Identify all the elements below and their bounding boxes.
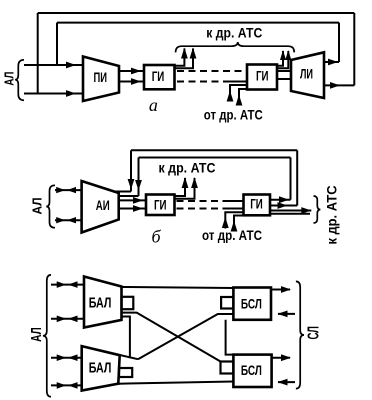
wire b feedback left inner vertical xyxy=(138,158,140,197)
brace k dr ATS right diagram b xyxy=(314,196,321,223)
wire b incoming trunk 1 xyxy=(225,212,243,228)
wire GIb1 up trunk 2 xyxy=(175,178,195,199)
block GI b-left box xyxy=(146,195,175,216)
block PI trapezoid xyxy=(83,57,119,102)
node arrow LI out 1 xyxy=(328,59,338,66)
node arrow AI-GI 2 xyxy=(133,205,143,212)
svg-text:к др. АТС: к др. АТС xyxy=(325,185,340,244)
wire E inter-BSL vertical xyxy=(226,320,234,355)
wire D inter-BAL vertical xyxy=(122,317,130,358)
wire F bottom straight xyxy=(118,382,233,384)
node arrow b trunk 1 xyxy=(301,207,311,214)
node double arrow b line 2 xyxy=(56,217,76,223)
wire cross diagonal up xyxy=(138,314,233,359)
wire LI out 2 xyxy=(324,84,354,86)
node arrow b out 1 xyxy=(279,196,289,203)
wire feedback top outer xyxy=(38,12,355,14)
wire b feedback right inner vertical xyxy=(290,158,292,200)
svg-text:БАЛ: БАЛ xyxy=(89,360,112,377)
node arrow input 2 xyxy=(66,90,76,97)
wire feedback left outer vertical xyxy=(37,13,39,94)
svg-text:к др. АТС: к др. АТС xyxy=(206,25,262,41)
wire GI1 up trunk 2 xyxy=(175,49,194,69)
svg-text:АЛ: АЛ xyxy=(30,198,45,215)
wire b incoming trunk 2 xyxy=(234,216,244,229)
node arrow up 1 xyxy=(181,48,188,59)
node arrow b out 2 xyxy=(278,202,288,209)
wire corner junction bottom BAL xyxy=(120,355,138,359)
svg-text:ПИ: ПИ xyxy=(93,69,107,85)
wire incoming trunk 2 xyxy=(239,89,247,102)
wire b outgoing trunk 2 xyxy=(270,213,310,215)
wire v subscriber line 2 xyxy=(51,318,84,320)
wire b GI2 out feedback 2 xyxy=(270,205,297,207)
node arrow GI2 up 2 xyxy=(285,50,291,60)
wire PI to GI line 2 xyxy=(119,81,144,83)
svg-text:АИ: АИ xyxy=(96,197,110,213)
svg-text:БСЛ: БСЛ xyxy=(241,362,262,378)
svg-text:ГИ: ГИ xyxy=(152,68,165,84)
node arrow GI2 up 1 xyxy=(280,50,286,60)
wire C cross diagonal down xyxy=(122,313,221,362)
svg-text:к др. АТС: к др. АТС xyxy=(159,160,216,176)
block GI right box xyxy=(247,65,277,90)
block LI trapezoid xyxy=(291,52,324,98)
wire b subscriber line 2 xyxy=(55,219,82,221)
node arrow BSL bottom out xyxy=(281,354,291,361)
svg-text:АЛ: АЛ xyxy=(29,327,45,342)
wire b feedback right outer vertical xyxy=(296,150,298,205)
wire GI1 up trunk 1 xyxy=(175,49,185,66)
node arrow incoming 2 xyxy=(236,95,243,106)
block GI left box xyxy=(144,65,175,89)
svg-text:БАЛ: БАЛ xyxy=(89,294,112,311)
svg-text:СЛ: СЛ xyxy=(305,326,322,340)
node arrow b up 1 xyxy=(182,177,189,188)
connector rect BSL top xyxy=(221,297,233,309)
node arrow down outer xyxy=(128,179,135,190)
svg-text:ГИ: ГИ xyxy=(250,196,263,212)
wire b feedback top inner xyxy=(139,157,291,159)
brace AL left diagram v xyxy=(43,275,51,397)
block GI b-right box xyxy=(244,195,271,216)
wire GI2 up trunk 1 xyxy=(277,51,283,66)
node double arrow v1 xyxy=(57,281,78,288)
wire dashed trunk 1 xyxy=(177,70,247,72)
brace SL right diagram v xyxy=(296,281,304,388)
wire BSL bottom incoming xyxy=(278,381,295,383)
node double arrow b line 1 xyxy=(56,187,76,193)
wire b feedback top outer xyxy=(131,149,297,151)
wire input line 1 to PI xyxy=(24,64,83,66)
wire feedback right outer vertical xyxy=(353,13,355,85)
wire b feedback left outer vertical xyxy=(130,150,132,191)
wire b GI2 out feedback 1 xyxy=(270,199,291,201)
node double arrow v2 xyxy=(57,316,78,323)
svg-text:АЛ: АЛ xyxy=(3,72,17,86)
wire incoming trunk 1 xyxy=(230,85,247,102)
wire v subscriber line 1 xyxy=(51,284,84,286)
block BAL bottom trapezoid xyxy=(82,346,120,390)
svg-text:а: а xyxy=(149,95,158,115)
wire BSL top outgoing xyxy=(271,289,290,291)
wire input line 2 to PI xyxy=(24,93,83,95)
wire AI to GI 2 xyxy=(119,208,146,210)
node arrow b incoming 2 xyxy=(231,221,238,232)
brace AL left diagram a xyxy=(15,60,24,101)
wire PI to GI line 1 xyxy=(119,70,144,72)
connector rect BAL top xyxy=(122,297,134,309)
node arrow PI-GI 1 xyxy=(131,68,141,75)
wire GI2 to LI 1 xyxy=(277,70,291,72)
connector rect BAL bottom xyxy=(119,368,132,377)
node arrow PI-GI 2 xyxy=(131,78,141,85)
wire b stub outer to AI xyxy=(116,191,132,193)
node arrow AI-GI 1 xyxy=(133,197,143,204)
wire A top straight xyxy=(122,287,234,288)
node arrow b up 2 xyxy=(191,177,198,188)
wire b outgoing trunk 1 xyxy=(270,210,311,212)
block AI trapezoid xyxy=(82,181,119,233)
wire b trunk 1 solid tail xyxy=(226,200,244,202)
node arrow down inner xyxy=(135,180,142,191)
svg-text:ЛИ: ЛИ xyxy=(300,66,313,82)
svg-text:ГИ: ГИ xyxy=(154,197,167,213)
block BSL top box xyxy=(233,288,271,320)
node arrow b incoming 1 xyxy=(222,217,229,228)
node double arrow v3 xyxy=(57,354,78,361)
wire GI2 up trunk 2 xyxy=(277,51,288,68)
wire feedback right inner vertical xyxy=(338,23,340,62)
node arrow LI out 2 xyxy=(330,82,340,89)
svg-text:от др. АТС: от др. АТС xyxy=(204,106,263,122)
wire BSL bottom outgoing xyxy=(272,357,290,359)
wire b subscriber line 1 xyxy=(55,189,82,191)
wire trunk 2 solid tail xyxy=(224,81,247,83)
node arrow BSL top out xyxy=(281,286,291,293)
node arrow input 1 xyxy=(66,62,76,69)
wire dashed trunk 2 xyxy=(177,81,224,83)
wire b dashed trunk 1 xyxy=(177,200,227,202)
connector rect BSL bottom xyxy=(221,362,234,374)
block BAL top trapezoid xyxy=(84,277,122,328)
wire b dashed trunk 2 xyxy=(177,208,227,210)
brace AL left diagram b xyxy=(46,185,55,227)
svg-text:от др. АТС: от др. АТС xyxy=(202,227,262,243)
brace k dr ATS diagram a xyxy=(176,42,295,52)
node arrow BSL bottom in xyxy=(278,379,288,386)
svg-text:БСЛ: БСЛ xyxy=(241,295,262,311)
node arrow up 2 xyxy=(190,48,197,59)
block BSL bottom box xyxy=(233,355,271,387)
wire AI to GI 1 xyxy=(119,199,146,201)
node arrow BSL top in xyxy=(278,311,288,318)
wire v subscriber line 3 xyxy=(51,357,82,359)
node double arrow v4 xyxy=(57,382,78,389)
wire b stub inner to AI xyxy=(119,195,139,197)
wire b trunk 2 solid tail xyxy=(226,208,244,210)
svg-text:б: б xyxy=(151,227,161,247)
wire GI2 to LI 2 xyxy=(277,78,291,80)
wire feedback top inner xyxy=(57,22,339,24)
wire LI out 1 xyxy=(324,61,339,63)
wire v subscriber line 4 xyxy=(51,384,82,386)
wire feedback left inner vertical xyxy=(56,23,58,65)
wire GIb1 up trunk 1 xyxy=(175,178,186,196)
svg-text:ГИ: ГИ xyxy=(256,68,269,84)
node arrow incoming 1 xyxy=(227,91,234,102)
wire BSL top incoming xyxy=(278,313,295,315)
